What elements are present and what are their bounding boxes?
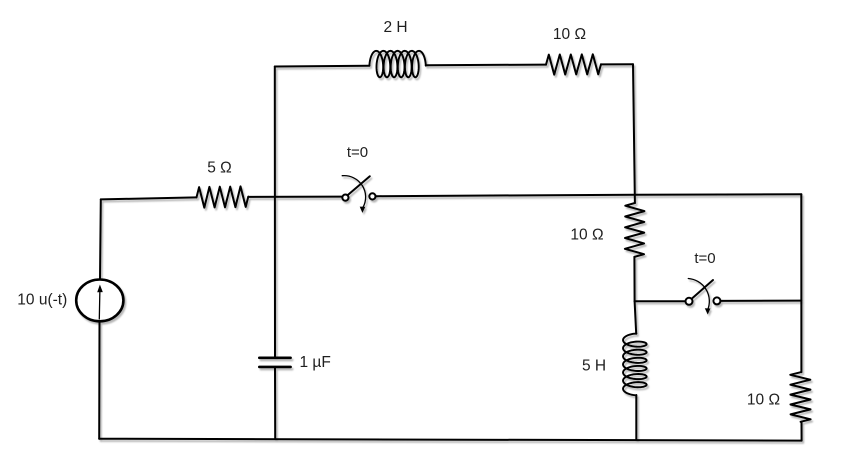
svg-text:1 µF: 1 µF: [300, 354, 331, 371]
wire top middle segment: [426, 64, 546, 67]
wire top-right horizontal segment: [601, 63, 633, 65]
wire switch-row right segment: [721, 300, 802, 302]
wire middle-left horizontal segment: [101, 197, 197, 199]
inductor L1 2H: [369, 51, 425, 77]
svg-text:t=0: t=0: [694, 250, 715, 267]
svg-text:t=0: t=0: [347, 144, 368, 161]
switch S1 t=0: [342, 176, 375, 213]
wire far-right vertical above R4: [800, 194, 802, 372]
svg-text:10 u(-t): 10 u(-t): [17, 292, 67, 309]
svg-text:10 Ω: 10 Ω: [553, 26, 586, 43]
wire left branch vertical (top node through middle wire to capacitor): [274, 67, 276, 357]
wire top-left horizontal segment: [275, 65, 370, 68]
resistor R1 5ohm: [197, 186, 249, 207]
wire middle vertical below 5H: [635, 395, 637, 440]
wire capacitor to bottom: [274, 367, 276, 439]
svg-text:10 Ω: 10 Ω: [570, 226, 603, 243]
wire bottom horizontal: [99, 439, 801, 441]
capacitor C1 1uF: [259, 358, 290, 367]
svg-text:5 H: 5 H: [582, 358, 606, 375]
wire left vertical below source: [98, 321, 100, 438]
wire middle segment switch to right: [376, 195, 635, 197]
wire middle segment to switch: [248, 196, 342, 198]
switch S2 t=0: [686, 279, 721, 315]
wire top-right vertical: [633, 64, 635, 203]
svg-text:2 H: 2 H: [383, 19, 407, 36]
svg-text:5 Ω: 5 Ω: [207, 159, 232, 176]
inductor L2 5H: [623, 334, 647, 396]
wire left vertical above source: [99, 199, 102, 279]
wire middle vertical above 5H: [635, 301, 637, 334]
svg-text:10 Ω: 10 Ω: [747, 391, 780, 408]
resistor R3 10ohm middle: [625, 203, 645, 257]
wire switch-row left segment: [635, 300, 686, 302]
resistor R2 10ohm top: [546, 54, 601, 74]
wire middle vertical between R3 and switch row: [633, 257, 635, 301]
wire far-right vertical below R4: [801, 422, 803, 441]
wire middle far-right segment: [635, 193, 801, 195]
resistor R4 10ohm right: [790, 372, 810, 422]
current source I1 10u(-t): [76, 280, 123, 322]
